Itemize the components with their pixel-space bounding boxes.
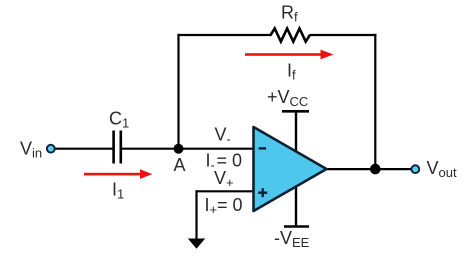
wire: top feedback right segment [310, 34, 377, 36]
svg-text:-VEE: -VEE [274, 228, 310, 250]
wire: capacitor to op-amp inverting input [120, 148, 254, 150]
op-amp U1 [254, 127, 327, 211]
wire: op-amp to VEE [295, 183, 297, 227]
current arrow I1 [84, 169, 152, 179]
wire: top feedback left segment [177, 34, 271, 36]
wire: down to ground [195, 190, 197, 239]
resistor Rf [271, 29, 310, 42]
wire: Vin to capacitor [55, 148, 114, 150]
svg-text:+VCC: +VCC [267, 87, 308, 109]
terminal Vin [47, 145, 55, 153]
svg-text:Rf: Rf [281, 3, 298, 25]
svg-text:If: If [287, 61, 296, 83]
op-amp minus pin mark [259, 147, 267, 149]
ground [188, 239, 205, 249]
wire: node A up to feedback [177, 34, 179, 149]
wire: op-amp output to Vout terminal [326, 168, 411, 170]
current arrow If [245, 50, 334, 60]
-VEE rail bar [284, 225, 309, 228]
svg-text:I+= 0: I+= 0 [205, 195, 243, 217]
output junction dot [370, 164, 381, 175]
wire: VCC to op-amp [295, 111, 297, 155]
svg-text:V+: V+ [214, 168, 234, 190]
+VCC rail bar [282, 110, 309, 113]
svg-text:C1: C1 [109, 109, 129, 131]
svg-text:Vout: Vout [427, 158, 457, 180]
wire: non-inverting input to ground run [197, 190, 255, 192]
svg-text:I1: I1 [112, 180, 124, 202]
node A junction dot [174, 144, 184, 154]
svg-text:Vin: Vin [20, 139, 42, 161]
svg-text:V-: V- [215, 125, 231, 147]
svg-text:A: A [174, 155, 186, 175]
capacitor C1 [114, 131, 121, 164]
terminal Vout [411, 165, 419, 173]
op-amp plus pin mark [258, 188, 267, 197]
wire: right feedback drop to output node [374, 34, 376, 169]
